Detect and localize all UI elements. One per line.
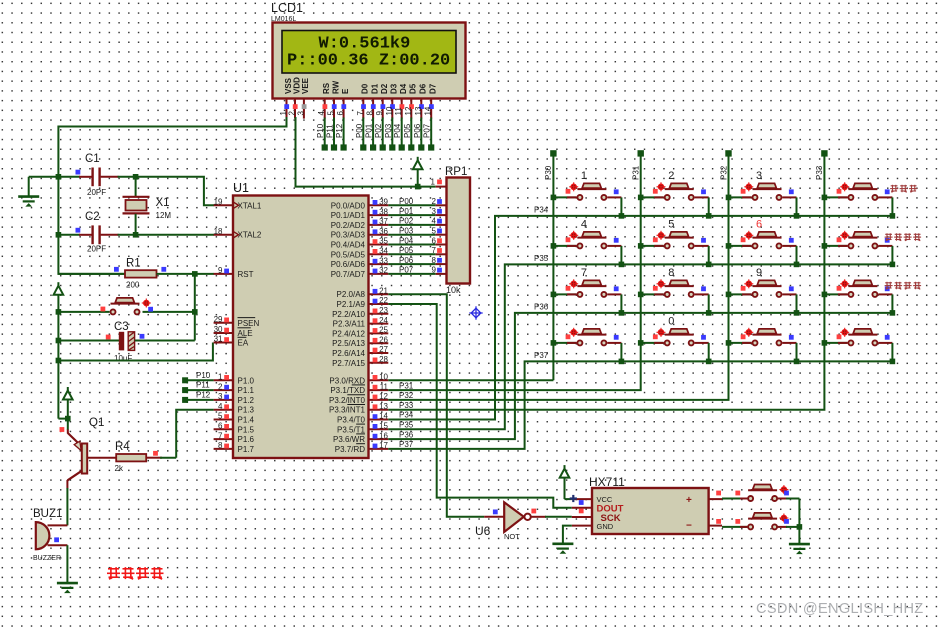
- wire LCD pin 8 to net P01: [365, 118, 377, 151]
- svg-text:P1.3: P1.3: [238, 406, 255, 415]
- svg-text:P2.1/A9: P2.1/A9: [337, 300, 366, 309]
- svg-text:D6: D6: [419, 83, 428, 94]
- svg-text:PSEN: PSEN: [238, 319, 260, 328]
- capacitor C3 10uF (polarized): [58, 321, 194, 363]
- U1 pin 15 P3.5/T1: [337, 422, 389, 435]
- RP1 pin 5 stub: [436, 234, 447, 236]
- svg-text:P2.2/A10: P2.2/A10: [332, 310, 365, 319]
- node keypad column P32 top terminal: [719, 150, 731, 180]
- junction R1/RST/reset-button node: [192, 271, 198, 277]
- svg-text:P34: P34: [534, 206, 549, 215]
- svg-text:−: −: [686, 521, 692, 532]
- pushbutton key row1 col4: [822, 182, 918, 218]
- junction VCC/Q1: [65, 416, 71, 422]
- svg-text:0: 0: [668, 316, 674, 328]
- svg-text:P04: P04: [399, 236, 414, 245]
- svg-text:P0.3/AD3: P0.3/AD3: [331, 231, 366, 240]
- svg-text:28: 28: [379, 355, 388, 364]
- svg-text:8: 8: [366, 111, 375, 116]
- svg-text:XTAL2: XTAL2: [238, 231, 262, 240]
- key label (chinese) row1: [890, 185, 917, 192]
- pushbutton key row1 col3: [726, 170, 800, 219]
- svg-text:24: 24: [379, 316, 388, 325]
- svg-text:ALE: ALE: [238, 329, 253, 338]
- svg-text:33: 33: [379, 256, 388, 265]
- wire P2.0 (pin21) to U6 input: [388, 294, 484, 517]
- svg-text:200: 200: [126, 281, 140, 290]
- key label (chinese) row2: [885, 233, 922, 240]
- wire P3.2 to keypad column P32: [388, 153, 728, 400]
- key label (chinese) row3: [885, 282, 922, 289]
- U1 pin 11 P3.1/TXD: [330, 382, 388, 395]
- svg-text:P2.4/A12: P2.4/A12: [332, 329, 365, 338]
- svg-text:U6: U6: [475, 524, 491, 538]
- U1 pin 14 P3.4/T0: [337, 412, 389, 425]
- pushbutton key row1 col2: [638, 170, 712, 219]
- svg-text:39: 39: [379, 198, 388, 207]
- svg-text:P06: P06: [399, 256, 414, 265]
- svg-text:P0.4/AD4: P0.4/AD4: [331, 241, 366, 250]
- U1 pin 7 P1.6: [214, 431, 255, 444]
- svg-text:P31: P31: [399, 381, 414, 390]
- wire P0.6 net P06 to RP1 pin 8: [388, 256, 442, 265]
- svg-text:14: 14: [379, 412, 388, 421]
- origin marker: [469, 306, 482, 319]
- svg-text:16: 16: [379, 431, 388, 440]
- wire LCD VDD pin2 to RP1 pin1 (VCC): [296, 117, 436, 187]
- wire LCD pin 6 to net P12: [335, 118, 347, 151]
- junction buttons: [797, 524, 803, 530]
- svg-text:P35: P35: [534, 254, 549, 263]
- svg-text:+: +: [686, 495, 692, 506]
- U1 pin 13 P3.3/INT1: [329, 402, 389, 415]
- svg-text:32: 32: [379, 266, 388, 275]
- svg-text:9: 9: [756, 267, 762, 279]
- svg-text:17: 17: [379, 441, 388, 450]
- svg-text:6: 6: [336, 111, 345, 116]
- svg-text:P::00.36 Z:00.20: P::00.36 Z:00.20: [287, 52, 450, 71]
- wire P3.3 to keypad column P33: [388, 153, 824, 409]
- U1 pin 22 P2.1/A9: [337, 296, 389, 309]
- LCD pin 5 RW: [327, 80, 341, 118]
- U1 pin 6 P1.5: [214, 422, 255, 435]
- RP1 pin 7 stub: [436, 253, 447, 255]
- svg-text:P35: P35: [399, 421, 414, 430]
- svg-text:R4: R4: [115, 441, 130, 453]
- wire P3.1 to keypad column P31: [388, 153, 640, 390]
- svg-text:15: 15: [379, 422, 388, 431]
- svg-text:D4: D4: [399, 83, 408, 94]
- svg-text:P1.5: P1.5: [238, 425, 255, 434]
- svg-text:P1.4: P1.4: [238, 416, 255, 425]
- svg-text:2: 2: [218, 382, 223, 391]
- svg-text:P36: P36: [399, 430, 414, 439]
- svg-text:34: 34: [379, 247, 388, 256]
- svg-text:VEE: VEE: [301, 77, 310, 94]
- svg-text:D5: D5: [409, 83, 418, 94]
- power VCC arrow (HX711): [560, 465, 572, 499]
- U1 pin 35 P0.4/AD4: [331, 237, 389, 250]
- svg-text:P11: P11: [326, 124, 335, 138]
- svg-text:U1: U1: [233, 181, 249, 195]
- resistor R4 2k: [87, 441, 176, 473]
- pushbutton load-cell -: [716, 513, 799, 530]
- svg-text:P04: P04: [393, 123, 402, 138]
- svg-text:4: 4: [581, 219, 587, 231]
- svg-text:7: 7: [218, 431, 223, 440]
- node keypad column P33 top terminal: [815, 150, 827, 180]
- wire P2.1 (pin22) to HX711 DOUT: [388, 304, 572, 508]
- svg-text:P3.6/WR: P3.6/WR: [333, 435, 365, 444]
- svg-text:25: 25: [379, 326, 388, 335]
- svg-text:P3.0/RXD: P3.0/RXD: [329, 376, 365, 385]
- svg-text:P01: P01: [399, 207, 414, 216]
- svg-text:7: 7: [356, 111, 365, 116]
- svg-text:P32: P32: [719, 165, 728, 180]
- LCD pin 8 D1: [366, 83, 380, 118]
- pushbutton key row2 col4: [822, 231, 922, 267]
- svg-text:9: 9: [218, 266, 223, 275]
- svg-text:12: 12: [404, 106, 413, 115]
- svg-text:E: E: [341, 88, 350, 94]
- svg-text:37: 37: [379, 217, 388, 226]
- svg-text:D2: D2: [380, 83, 389, 94]
- U1 pin 38 P0.1/AD1: [331, 207, 389, 220]
- RP1 pin 8 stub: [436, 263, 447, 265]
- U1 pin 19 XTAL1: [214, 198, 262, 211]
- wire LCD pin 4 to net P10: [316, 118, 328, 151]
- svg-text:11: 11: [394, 107, 403, 116]
- microcontroller U1 (8051) body: [233, 181, 369, 458]
- svg-text:6: 6: [756, 219, 762, 231]
- svg-text:P05: P05: [403, 123, 412, 138]
- U1 pin 34 P0.5/AD5: [331, 247, 389, 260]
- svg-text:D0: D0: [361, 83, 370, 94]
- wire U1 P1.2 net P12: [182, 390, 214, 403]
- wire BUZ1 to ground: [66, 545, 68, 583]
- svg-text:LCD1: LCD1: [271, 1, 303, 15]
- LCD pin 4 RS: [317, 82, 331, 118]
- svg-text:P0.6/AD6: P0.6/AD6: [331, 260, 366, 269]
- LCD pin 13 D6: [414, 83, 428, 118]
- wire LCD pin 5 to net P11: [326, 118, 338, 151]
- module HX711: [589, 475, 709, 534]
- svg-text:21: 21: [379, 286, 388, 295]
- U1 pin 5 P1.4: [214, 412, 255, 425]
- pushbutton key row3 col1: [551, 267, 625, 316]
- RP1 pin 6 stub: [436, 244, 447, 246]
- U1 pin 33 P0.6/AD6: [331, 256, 389, 269]
- svg-text:XTAL1: XTAL1: [238, 201, 262, 210]
- svg-text:P0.2/AD2: P0.2/AD2: [331, 221, 366, 230]
- U1 pin 10 P3.0/RXD: [329, 373, 388, 386]
- wire P0.7 net P07 to RP1 pin 9: [388, 266, 442, 275]
- U1 pin 17 P3.7/RD: [335, 441, 389, 454]
- svg-text:RS: RS: [322, 82, 331, 94]
- pushbutton key row4 col4: [822, 328, 896, 364]
- svg-text:P03: P03: [399, 227, 414, 236]
- svg-text:P00: P00: [355, 123, 364, 138]
- svg-text:2: 2: [668, 170, 674, 182]
- svg-text:P00: P00: [399, 197, 414, 206]
- svg-text:C1: C1: [85, 153, 100, 165]
- wire Q1 collector to BUZ1: [66, 488, 68, 525]
- wire P0.3 net P03 to RP1 pin 5: [388, 227, 442, 236]
- svg-text:13: 13: [379, 402, 388, 411]
- wire P3.0 to keypad column P30: [388, 379, 553, 381]
- svg-text:X1: X1: [156, 197, 170, 209]
- svg-text:P10: P10: [316, 123, 325, 138]
- svg-text:P1.0: P1.0: [238, 376, 255, 385]
- svg-text:5: 5: [668, 219, 674, 231]
- LCD pin 11 D4: [394, 83, 408, 118]
- svg-text:P37: P37: [534, 351, 549, 360]
- LCD pin 2 VDD: [288, 77, 302, 119]
- resistor R1 200: [58, 258, 214, 290]
- svg-text:P33: P33: [815, 165, 824, 180]
- svg-text:RP1: RP1: [445, 166, 467, 178]
- svg-text:P1.7: P1.7: [238, 445, 255, 454]
- svg-text:P0.5/AD5: P0.5/AD5: [331, 250, 366, 259]
- svg-text:36: 36: [379, 227, 388, 236]
- svg-text:P31: P31: [632, 165, 641, 180]
- U1 pin 32 P0.7/AD7: [331, 266, 389, 279]
- wire LCD pin 13 to net P06: [413, 118, 425, 151]
- wire RST node vertical: [194, 274, 196, 341]
- svg-text:1: 1: [218, 373, 223, 382]
- svg-text:P34: P34: [399, 411, 414, 420]
- pushbutton key row3 col4: [822, 279, 922, 315]
- svg-text:P3.5/T1: P3.5/T1: [337, 425, 366, 434]
- LCD display LCD1 (LM016L): [271, 1, 466, 99]
- svg-text:EA: EA: [238, 339, 249, 348]
- svg-text:20PF: 20PF: [87, 188, 106, 197]
- junction VCC/C3: [56, 338, 62, 344]
- wire keypad column P30: [552, 153, 554, 380]
- svg-text:12M: 12M: [156, 211, 172, 220]
- LCD pin 12 D5: [404, 83, 418, 118]
- svg-text:38: 38: [379, 207, 388, 216]
- pushbutton key row4 col2: [638, 316, 712, 365]
- U1 pin 26 P2.5/A13: [332, 335, 388, 348]
- svg-text:D3: D3: [390, 83, 399, 94]
- svg-text:P37: P37: [399, 440, 414, 449]
- svg-text:P02: P02: [374, 123, 383, 138]
- U1 pin 31 EA: [214, 335, 249, 348]
- svg-text:3: 3: [296, 111, 305, 116]
- U1 pin 30 ALE: [214, 325, 253, 338]
- wire U1 P1.1 net P11: [182, 381, 214, 394]
- pushbutton reset: [58, 298, 194, 315]
- wire LCD pin 11 to net P04: [393, 118, 405, 151]
- svg-text:2k: 2k: [115, 464, 124, 473]
- wire EA to VCC rail: [58, 343, 213, 361]
- U1 pin 9 RST: [214, 266, 254, 279]
- junction GND/C2: [56, 232, 62, 238]
- RP1 pin 2 stub: [436, 204, 447, 206]
- svg-text:P03: P03: [384, 123, 393, 138]
- svg-text:8: 8: [218, 441, 223, 450]
- svg-text:3: 3: [756, 170, 762, 182]
- wire P1.3 to R4: [176, 410, 213, 458]
- wire LCD pin 10 to net P03: [384, 118, 396, 151]
- junction C2/X1/XTAL2 node: [133, 232, 139, 238]
- LCD pin 6 E: [336, 88, 350, 119]
- svg-text:P30: P30: [544, 165, 553, 180]
- U1 pin 1 P1.0: [214, 373, 255, 386]
- svg-text:P0.0/AD0: P0.0/AD0: [331, 201, 366, 210]
- svg-text:P2.6/A14: P2.6/A14: [332, 349, 365, 358]
- U1 pin 25 P2.4/A12: [332, 326, 388, 339]
- svg-text:P36: P36: [534, 303, 549, 312]
- svg-text:4: 4: [317, 111, 326, 116]
- pushbutton key row1 col1: [551, 170, 625, 219]
- wire XTAL2 net: [136, 234, 214, 236]
- junction button/RST: [192, 309, 198, 315]
- wire P0.2 net P02 to RP1 pin 4: [388, 217, 442, 226]
- svg-text:P33: P33: [399, 401, 414, 410]
- svg-text:C3: C3: [114, 321, 129, 333]
- svg-text:P02: P02: [399, 217, 414, 226]
- LCD pin 1 VSS: [279, 77, 293, 118]
- svg-text:P32: P32: [399, 391, 414, 400]
- power VCC arrow (reset circuit): [54, 282, 64, 312]
- U1 pin 21 P2.0/A8: [337, 286, 389, 299]
- svg-text:P0.7/AD7: P0.7/AD7: [331, 270, 366, 279]
- wire buttons to ground: [798, 499, 800, 545]
- ground (load-cell buttons): [789, 544, 810, 554]
- svg-text:8: 8: [668, 267, 674, 279]
- wire P0.4 net P04 to RP1 pin 6: [388, 236, 442, 245]
- LCD pin 9 D2: [375, 83, 389, 118]
- wire U1 P1.0 net P10: [182, 371, 214, 384]
- svg-text:10: 10: [385, 106, 394, 115]
- label alarm module (chinese red): [107, 567, 164, 579]
- svg-text:P07: P07: [423, 123, 432, 138]
- svg-text:18: 18: [214, 227, 223, 236]
- junction C1/X1/XTAL1 node: [133, 174, 139, 180]
- svg-text:20PF: 20PF: [87, 245, 106, 254]
- RP1 pin 9 stub: [436, 273, 447, 275]
- U1 pin 29 PSEN: [214, 315, 260, 328]
- resistor pack RP1 10k: [445, 166, 470, 295]
- svg-text:Q1: Q1: [89, 417, 104, 429]
- svg-text:29: 29: [214, 315, 223, 324]
- pushbutton key row4 col1: [551, 328, 625, 364]
- wire U6 output to HX711 SCK: [531, 509, 572, 517]
- pushbutton key row3 col3: [726, 267, 800, 316]
- svg-text:30: 30: [214, 325, 223, 334]
- svg-text:4: 4: [218, 402, 223, 411]
- svg-text:R1: R1: [126, 258, 141, 270]
- wire P3.5 to keypad row P35: [388, 264, 893, 429]
- svg-text:22: 22: [379, 296, 388, 305]
- buzzer BUZ1: [33, 508, 67, 562]
- U1 pin 36 P0.3/AD3: [331, 227, 389, 240]
- U1 pin 24 P2.3/A11: [333, 316, 389, 329]
- svg-text:RW: RW: [331, 80, 340, 94]
- svg-text:10k: 10k: [446, 285, 461, 295]
- wire LCD pin 14 to net P07: [423, 118, 435, 151]
- svg-text:P0.1/AD1: P0.1/AD1: [331, 211, 366, 220]
- svg-text:BUZ1: BUZ1: [33, 508, 62, 520]
- wire P0.0 net P00 to RP1 pin 2: [388, 197, 442, 206]
- power VCC arrow (Q1): [58, 387, 72, 419]
- svg-text:12: 12: [379, 392, 388, 401]
- svg-text:P2.7/A15: P2.7/A15: [332, 359, 365, 368]
- U1 pin 2 P1.1: [214, 382, 255, 395]
- svg-text:13: 13: [414, 106, 423, 115]
- RP1 pin 3 stub: [436, 214, 447, 216]
- node keypad column P30 top terminal: [544, 150, 556, 180]
- junction VCC/button: [56, 309, 62, 315]
- logic gate U6 NOT: [475, 502, 531, 541]
- svg-text:1: 1: [581, 170, 587, 182]
- svg-text:P3.3/INT1: P3.3/INT1: [329, 406, 366, 415]
- wire VCC rail left: [57, 312, 59, 419]
- node keypad column P31 top terminal: [632, 150, 644, 180]
- junction VDD wire / RP1 arrow: [415, 184, 421, 190]
- U1 pin 16 P3.6/WR: [333, 431, 389, 444]
- power VCC arrow (RP1): [413, 157, 423, 187]
- capacitor C1 20PF: [58, 153, 135, 197]
- U1 pin 39 P0.0/AD0: [331, 198, 389, 211]
- crystal X1 12M: [123, 177, 172, 235]
- svg-text:P01: P01: [365, 123, 374, 138]
- svg-text:D7: D7: [429, 83, 438, 94]
- wire P3.6 to keypad row P36: [388, 313, 893, 439]
- wire LCD pin 7 to net P00: [355, 118, 367, 151]
- svg-text:P05: P05: [399, 246, 414, 255]
- U1 pin 27 P2.6/A14: [332, 345, 388, 358]
- svg-text:P3.1/TXD: P3.1/TXD: [330, 386, 365, 395]
- svg-text:35: 35: [379, 237, 388, 246]
- U1 pin 28 P2.7/A15: [332, 355, 388, 368]
- LCD pin 14 D7: [424, 83, 438, 118]
- svg-text:27: 27: [379, 345, 388, 354]
- LCD pin 3 VEE: [296, 77, 310, 118]
- svg-text:6: 6: [218, 422, 223, 431]
- svg-text:5: 5: [327, 111, 336, 116]
- RP1 pin 1 (common, VCC): [431, 178, 447, 187]
- svg-text:7: 7: [581, 267, 587, 279]
- svg-text:1: 1: [431, 178, 436, 187]
- svg-text:P2.0/A8: P2.0/A8: [337, 290, 366, 299]
- U1 pin 3 P1.2: [214, 392, 255, 405]
- svg-text:P1.2: P1.2: [238, 396, 255, 405]
- pushbutton key row2 col2: [638, 219, 712, 268]
- svg-text:BUZZER: BUZZER: [33, 555, 61, 562]
- svg-text:P12: P12: [196, 390, 211, 399]
- svg-text:P3.4/T0: P3.4/T0: [337, 416, 366, 425]
- U1 pin 18 XTAL2: [214, 227, 262, 240]
- node VCC junction cross: [570, 495, 577, 502]
- svg-text:P3.2/INT0: P3.2/INT0: [329, 396, 366, 405]
- svg-text:10: 10: [379, 373, 388, 382]
- capacitor C2 20PF: [58, 211, 135, 254]
- svg-text:C2: C2: [85, 211, 100, 223]
- ground (buzzer): [57, 583, 78, 593]
- pushbutton key row3 col2: [638, 267, 712, 316]
- junction VCC/EA: [56, 358, 62, 364]
- ground (top left): [18, 177, 58, 206]
- pushbutton key row2 col3: [726, 219, 800, 268]
- pushbutton load-cell +: [716, 485, 799, 502]
- wire LCD pin 12 to net P05: [403, 118, 415, 151]
- svg-text:19: 19: [214, 198, 223, 207]
- wire HX711 GND to ground: [563, 526, 572, 544]
- junction VSS/ground/C1: [56, 174, 62, 180]
